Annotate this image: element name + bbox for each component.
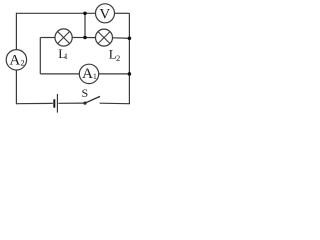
battery positive long plate xyxy=(56,94,58,113)
lamp L2 xyxy=(96,29,113,46)
node junction A1 row to right wire xyxy=(128,72,132,76)
svg-text:1: 1 xyxy=(93,72,97,81)
wire bottom from bottom-left corner to battery xyxy=(16,102,52,104)
wire center junction to L2 xyxy=(85,37,96,39)
wire lamp-row corner down to A1 row xyxy=(39,38,41,74)
wire top from top-left corner to voltmeter xyxy=(16,12,95,14)
node junction on top wire xyxy=(83,12,87,16)
wire top from voltmeter to top-right corner xyxy=(115,12,130,14)
wire A1 to right-wire junction xyxy=(99,73,130,75)
lamp L1 xyxy=(55,29,72,46)
svg-text:A: A xyxy=(82,66,93,82)
wire bottom from switch contact to bottom-right corner xyxy=(100,102,130,105)
switch blade (open) xyxy=(86,96,100,102)
voltmeter V xyxy=(96,4,115,23)
svg-text:A: A xyxy=(9,53,20,69)
svg-text:2: 2 xyxy=(20,58,24,68)
ammeter A1 xyxy=(79,64,98,83)
svg-text:V: V xyxy=(99,6,110,22)
svg-text:S: S xyxy=(81,86,88,100)
node junction between L1 and L2 xyxy=(83,36,87,40)
battery negative short plate xyxy=(53,99,55,107)
label L2 xyxy=(109,47,120,63)
switch S xyxy=(81,86,100,105)
wire left side vertical (A2 down to bottom-left corner) xyxy=(15,70,17,104)
wire L1 to center junction xyxy=(72,37,85,39)
svg-text:1: 1 xyxy=(64,52,68,61)
svg-text:2: 2 xyxy=(116,53,120,63)
switch pivot dot xyxy=(83,102,86,105)
battery (cell) xyxy=(54,94,57,113)
ammeter A2 xyxy=(6,50,26,70)
wire L2 to right-wire junction xyxy=(113,37,130,40)
wire vertical connector between top-wire node and lamp-row node xyxy=(84,13,86,37)
wire lamp-row left corner to L1 xyxy=(40,37,55,39)
wire right side vertical xyxy=(128,13,130,104)
wire left side vertical (top-left corner down to ammeter A2) xyxy=(15,13,17,50)
wire A1 row horizontal left segment xyxy=(40,73,79,75)
label L1 xyxy=(58,46,68,61)
node junction lamp row to right wire xyxy=(128,37,132,41)
wire bottom from battery to switch pivot xyxy=(58,102,84,104)
